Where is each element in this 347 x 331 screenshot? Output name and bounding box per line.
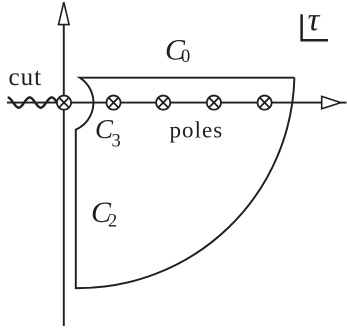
svg-text:τ: τ (308, 2, 321, 38)
pole 4 (207, 96, 221, 110)
horizontal axis arrowhead (322, 96, 341, 108)
svg-text:poles: poles (170, 118, 224, 143)
pole 5 (258, 96, 272, 110)
contour: C0 top segment, C3 small arc, left segment, C2 quarter arc (76, 78, 295, 288)
pole 1 (origin) (57, 96, 71, 110)
horizontal axis (Re line) (7, 102, 322, 104)
axis tip stub (341, 102, 347, 104)
tau frame corner bracket (302, 14, 328, 40)
vertical axis arrowhead (59, 2, 70, 24)
vertical axis (Im line) (63, 25, 65, 327)
svg-text:2: 2 (108, 212, 117, 232)
pole 2 (106, 96, 120, 110)
poles (crossed circles) (57, 96, 272, 110)
pole 3 (156, 96, 170, 110)
cut wavy line (8, 97, 58, 107)
svg-text:0: 0 (181, 47, 190, 67)
svg-text:3: 3 (112, 132, 121, 152)
svg-text:cut: cut (9, 64, 43, 91)
